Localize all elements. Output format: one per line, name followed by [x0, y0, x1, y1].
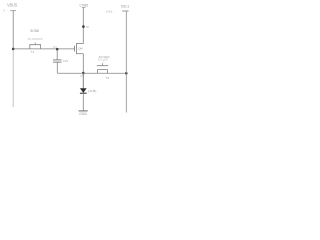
junction dot left — [12, 48, 15, 51]
ground bar — [79, 110, 88, 112]
wire gate horizontal — [13, 48, 74, 50]
transistor QM source lead — [77, 53, 84, 55]
svg-text:CVB5: CVB5 — [80, 2, 89, 7]
port tick VBUS — [10, 10, 16, 12]
transistor QM drain lead — [77, 43, 84, 45]
svg-text:-: - — [7, 8, 8, 12]
svg-text:I2E1: I2E1 — [121, 4, 129, 9]
switch T1 stub — [34, 42, 36, 44]
capacitor C15 top plate — [53, 59, 62, 61]
svg-text:5: 5 — [3, 9, 5, 13]
transistor QM channel bar — [76, 43, 78, 54]
svg-text:90: 90 — [86, 25, 90, 29]
diode DLED cathode bar — [80, 92, 87, 94]
diode DLED triangle — [80, 88, 87, 93]
svg-text:1N5 -: 1N5 - — [106, 10, 115, 14]
svg-text:VBUS: VBUS — [7, 2, 17, 7]
svg-text:C15: C15 — [63, 59, 69, 63]
wire VBUS down — [12, 11, 14, 49]
transistor QM gate bar — [74, 46, 76, 52]
switch T2 contact bump — [98, 70, 108, 74]
wire cathode down — [82, 93, 84, 111]
svg-text:GND: GND — [79, 112, 87, 116]
port tick I2C — [122, 10, 129, 12]
wire bottom run — [57, 72, 126, 74]
svg-text:QM: QM — [78, 47, 83, 51]
svg-text:(JLB): (JLB) — [88, 89, 97, 93]
wire source down — [82, 54, 84, 89]
svg-text:N1: N1 — [53, 45, 57, 49]
wire CVBS down to drain — [82, 8, 84, 44]
svg-text:T1: T1 — [31, 50, 35, 54]
capacitor C15 top lead — [56, 49, 58, 60]
junction dot N2 — [82, 72, 85, 75]
port tick CVBS — [82, 7, 85, 9]
switch T2 bridge — [97, 65, 108, 67]
diode DLED anode wire — [82, 73, 84, 88]
svg-text:5CB8: 5CB8 — [30, 29, 38, 33]
wire faint continuation left — [12, 49, 14, 107]
switch T2 stub — [101, 63, 103, 66]
capacitor C15 bottom lead — [56, 62, 58, 73]
svg-text:MF-MSMF050: MF-MSMF050 — [28, 37, 43, 41]
wire right vertical — [125, 11, 127, 113]
switch T1 bridge — [30, 45, 41, 49]
junction dot cap top — [56, 48, 59, 51]
junction dot N0 — [82, 25, 85, 28]
capacitor C15 bottom plate — [53, 61, 62, 63]
junction dot right end — [125, 72, 128, 75]
svg-text:T2: T2 — [106, 76, 110, 80]
svg-text:2: 2 — [103, 61, 105, 63]
